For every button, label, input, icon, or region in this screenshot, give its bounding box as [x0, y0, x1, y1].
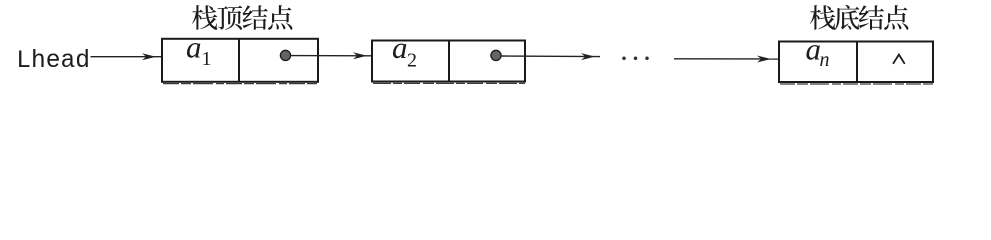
ellipsis dots [622, 56, 649, 60]
svg-text:a: a [186, 30, 202, 65]
wire: ellipsis -> node n [674, 56, 779, 63]
wire: node 1 -> node 2 [291, 52, 373, 59]
wire: node 2 -> ellipsis [501, 53, 600, 60]
wire: arrow Lhead -> node 1 [91, 53, 163, 60]
svg-text:1: 1 [202, 48, 212, 70]
node 2 box [372, 41, 525, 82]
node 1 box [162, 39, 318, 82]
node n null marker ^ [893, 55, 904, 64]
node 2 bottom scan shadow [373, 82, 525, 84]
svg-text:a: a [392, 30, 408, 65]
label: 栈底结点 (stack-bottom node) [810, 5, 908, 30]
label: 栈顶结点 (stack-top node) [192, 5, 292, 30]
node n bottom scan shadow [780, 83, 933, 85]
node 2 pointer dot [491, 50, 501, 60]
node 1 pointer dot [280, 50, 290, 60]
node n box [779, 42, 933, 83]
svg-text:Lhead: Lhead [16, 48, 90, 75]
svg-text:n: n [820, 49, 830, 71]
node 1 bottom scan shadow [163, 83, 318, 85]
svg-text:2: 2 [407, 50, 417, 72]
